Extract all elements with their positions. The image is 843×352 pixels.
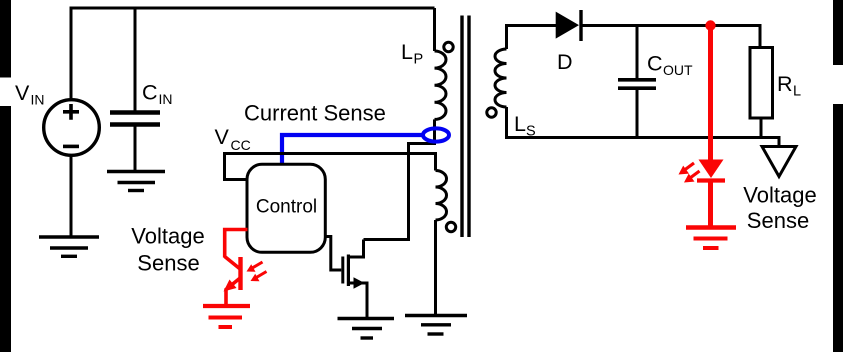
svg-text:D: D bbox=[557, 50, 573, 74]
ground (aux winding) bbox=[405, 316, 467, 335]
resistor RL bbox=[750, 48, 773, 119]
svg-text:IN: IN bbox=[159, 91, 173, 107]
capacitor COUT bbox=[618, 80, 656, 88]
ground (VIN) bbox=[39, 237, 99, 256]
inductor LP primary winding bbox=[435, 51, 447, 119]
wire: COUT drop bbox=[636, 26, 639, 79]
wire: diode cathode to RL top bbox=[581, 26, 760, 49]
node: red junction dot on top rail bbox=[705, 20, 715, 30]
svg-text:P: P bbox=[414, 51, 424, 67]
svg-text:C: C bbox=[647, 52, 663, 76]
wire: top rail from source to transformer bbox=[71, 7, 435, 10]
svg-text:L: L bbox=[514, 112, 526, 136]
wire: secondary bottom rail bbox=[507, 107, 780, 147]
label VIN bbox=[15, 81, 45, 108]
svg-text:C: C bbox=[142, 81, 158, 105]
svg-text:Sense: Sense bbox=[137, 251, 199, 276]
current probe loop (blue) bbox=[423, 128, 449, 141]
svg-text:IN: IN bbox=[31, 92, 45, 108]
capacitor CIN bbox=[110, 113, 160, 125]
wire: current sense (blue) bbox=[282, 135, 424, 164]
transformer core bbox=[462, 16, 469, 238]
inductor aux winding bbox=[436, 171, 447, 221]
label RL bbox=[777, 72, 801, 100]
transistor opto phototransistor (red) bbox=[224, 257, 267, 305]
wire: secondary top to diode anode bbox=[507, 26, 557, 50]
phase dot (secondary) bbox=[487, 108, 496, 117]
wire: source bottom stub bbox=[70, 155, 73, 237]
label LS bbox=[514, 112, 536, 140]
left border bar bbox=[0, 0, 11, 352]
phase dot (aux) bbox=[446, 222, 455, 231]
wire: CIN drop from top rail bbox=[134, 8, 137, 111]
ground (CIN) bbox=[107, 172, 165, 191]
svg-text:R: R bbox=[777, 72, 793, 96]
ground (MOSFET source) bbox=[338, 319, 395, 339]
label VCC bbox=[215, 125, 251, 153]
ground (sense, red) bbox=[686, 228, 736, 249]
voltage source VIN bbox=[44, 100, 100, 156]
svg-text:Voltage: Voltage bbox=[131, 224, 204, 249]
wire: primary bottom to MOSFET drain bbox=[364, 119, 435, 239]
wire: LED to ground (red) bbox=[708, 181, 713, 228]
op block: Control bbox=[247, 164, 325, 252]
wire: top rail drop to primary bbox=[433, 8, 436, 51]
right border bar bbox=[833, 0, 843, 352]
svg-text:Current Sense: Current Sense bbox=[244, 101, 386, 126]
svg-text:L: L bbox=[401, 40, 413, 64]
svg-text:L: L bbox=[793, 83, 801, 99]
svg-text:OUT: OUT bbox=[663, 62, 693, 78]
svg-text:Sense: Sense bbox=[747, 208, 809, 233]
diode D bbox=[556, 10, 581, 41]
ground (secondary, open triangle) bbox=[762, 147, 796, 177]
wire: source top stub bbox=[70, 7, 73, 101]
svg-text:V: V bbox=[215, 125, 230, 149]
svg-text:CC: CC bbox=[231, 137, 251, 153]
wire: control to MOSFET gate bbox=[326, 237, 342, 271]
label Voltage Sense (right) bbox=[743, 183, 816, 233]
label Voltage Sense (left) bbox=[131, 224, 204, 276]
label LP bbox=[401, 40, 423, 68]
svg-text:V: V bbox=[15, 81, 30, 105]
wire: RL bottom to rail bbox=[760, 118, 763, 138]
phase dot (primary) bbox=[444, 42, 453, 51]
wire: VCC from aux winding to control bbox=[225, 154, 436, 180]
wire: aux winding to ground bbox=[434, 220, 437, 316]
label COUT bbox=[647, 52, 693, 79]
label CIN bbox=[142, 81, 173, 108]
wire: CIN to ground bbox=[134, 126, 137, 172]
inductor LS secondary winding bbox=[495, 49, 506, 107]
transistor Q1 MOSFET bbox=[343, 240, 367, 319]
wire: COUT to bottom rail bbox=[636, 90, 639, 138]
LED (red, voltage sense) bbox=[679, 160, 726, 183]
ground (opto, red) bbox=[203, 306, 250, 327]
svg-text:Control: Control bbox=[256, 196, 317, 217]
wire: control to optocoupler (red) bbox=[225, 230, 248, 258]
svg-text:Voltage: Voltage bbox=[743, 183, 816, 208]
wire: sense tap (red) bbox=[708, 26, 713, 161]
